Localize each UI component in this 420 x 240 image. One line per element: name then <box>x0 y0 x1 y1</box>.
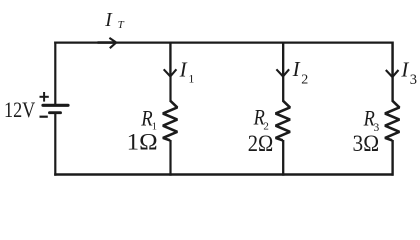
svg-text:3Ω: 3Ω <box>353 131 380 156</box>
svg-text:2Ω: 2Ω <box>248 131 273 156</box>
current arrow I2 <box>276 44 289 77</box>
resistor R3 zigzag <box>385 101 399 141</box>
current arrow IT on top wire <box>98 38 117 48</box>
svg-text:T: T <box>118 19 125 31</box>
resistor R1 zigzag <box>163 101 177 141</box>
svg-text:I: I <box>179 57 188 81</box>
wire right lower <box>391 140 393 176</box>
wire top <box>54 41 393 43</box>
wire branch1 lower <box>169 140 171 176</box>
wire left lower (from battery) <box>54 113 56 176</box>
svg-text:I: I <box>400 58 409 82</box>
svg-text:I: I <box>104 10 113 31</box>
battery minus sign <box>40 116 48 118</box>
svg-text:12V: 12V <box>4 97 35 122</box>
wire right upper <box>391 42 393 102</box>
svg-text:I: I <box>292 57 301 81</box>
wire branch2 lower <box>282 140 284 176</box>
svg-text:2: 2 <box>301 73 308 88</box>
wire left upper (to battery) <box>54 42 56 105</box>
wire branch1 upper <box>169 42 171 102</box>
battery V1 plate long (+) <box>43 104 68 107</box>
current arrow I1 <box>164 44 177 77</box>
wire branch2 upper <box>282 42 284 102</box>
current arrow I3 <box>386 44 399 78</box>
svg-text:1Ω: 1Ω <box>127 130 158 155</box>
wire bottom <box>54 173 393 175</box>
battery V1 plate short (-) <box>50 111 61 114</box>
battery plus sign <box>40 92 49 102</box>
svg-text:1: 1 <box>188 71 194 85</box>
resistor R2 zigzag <box>276 101 290 141</box>
svg-text:3: 3 <box>410 72 417 88</box>
